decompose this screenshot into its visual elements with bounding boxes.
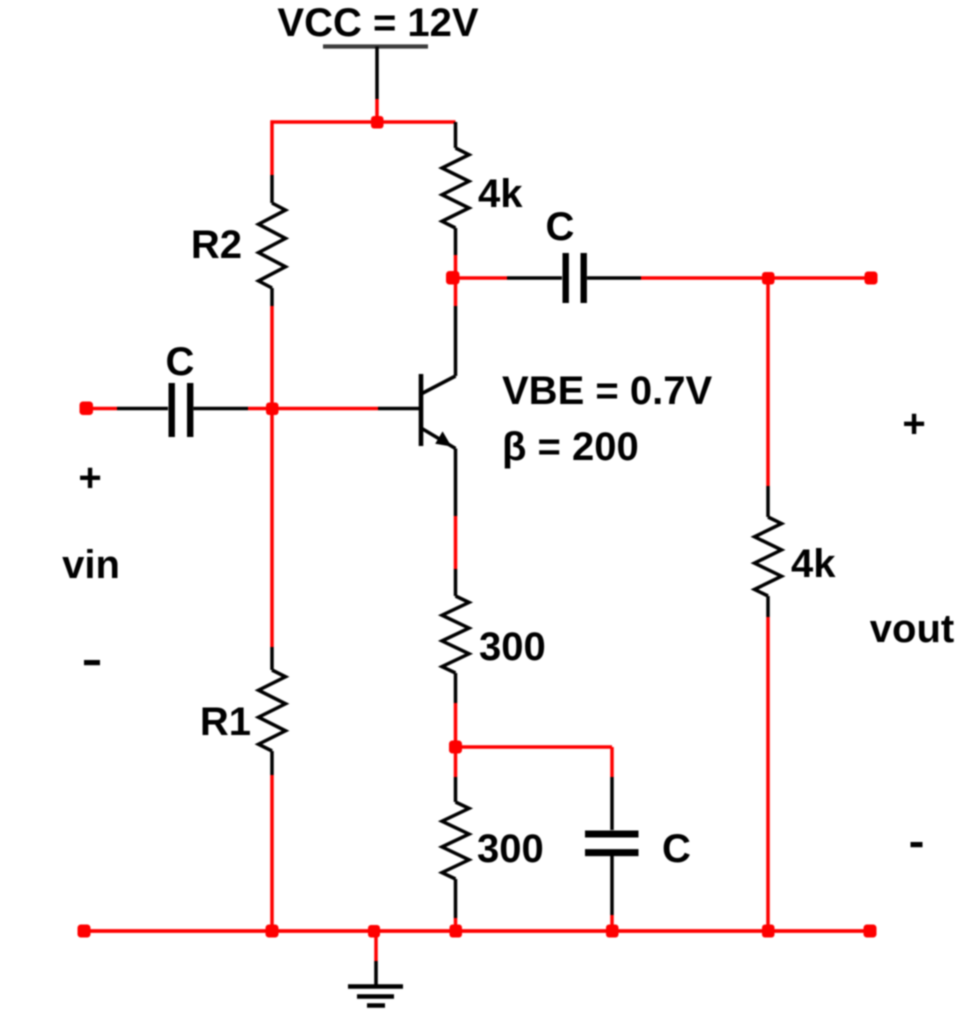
wire 4k to collector node bbox=[454, 255, 458, 306]
wire left branch middle (R2 to base node) bbox=[270, 306, 274, 408]
wire 300 to emitter mid node bbox=[454, 703, 458, 777]
node vin terminal dot bbox=[80, 402, 94, 416]
wire C2 to vout terminal bbox=[587, 276, 871, 280]
wire R1 to ground rail bbox=[270, 775, 274, 931]
svg-text:R2: R2 bbox=[191, 223, 242, 267]
wire collector node to transistor collector bbox=[454, 306, 458, 376]
svg-text:+: + bbox=[78, 456, 101, 500]
junction VCC node bbox=[371, 116, 384, 129]
svg-text:C: C bbox=[546, 205, 575, 249]
transistor Q1 (NPN BJT) bbox=[421, 374, 456, 449]
node vin- terminal dot bbox=[78, 925, 91, 938]
resistor 300 (lower emitter) bbox=[442, 777, 469, 918]
junction base node on left branch bbox=[266, 403, 279, 416]
power symbol VCC bar bbox=[323, 47, 428, 100]
resistor 4k (collector) bbox=[442, 148, 469, 255]
wire load branch upper bbox=[766, 278, 770, 486]
junction emitter branch at rail bbox=[450, 925, 463, 938]
svg-text:300: 300 bbox=[479, 625, 546, 669]
resistor 4k (load) bbox=[755, 486, 782, 617]
capacitor C2 (output coupling) bbox=[566, 253, 584, 303]
junction collector node bbox=[446, 271, 460, 285]
junction emitter mid node bbox=[449, 741, 462, 754]
resistor R1 bbox=[259, 647, 286, 775]
wire lower 300 to rail bbox=[454, 918, 458, 931]
wire vin terminal to C1 bbox=[86, 407, 168, 411]
svg-text:+: + bbox=[902, 402, 925, 446]
node vout- terminal dot bbox=[864, 925, 877, 938]
ground bbox=[348, 987, 403, 1006]
junction load branch at rail bbox=[762, 925, 775, 938]
wire left branch top (to R2) bbox=[270, 120, 274, 175]
resistor R2 bbox=[259, 175, 286, 306]
svg-text:4k: 4k bbox=[478, 172, 523, 216]
wire VCC stub red bbox=[375, 99, 379, 122]
svg-text:β = 200: β = 200 bbox=[502, 425, 639, 469]
svg-text:4k: 4k bbox=[791, 542, 836, 586]
junction ground at rail bbox=[368, 925, 380, 938]
junction load branch top node bbox=[762, 272, 775, 285]
wire emitter mid node to C3 top bbox=[456, 747, 613, 830]
resistor 300 (upper emitter) bbox=[442, 569, 469, 703]
svg-text:C: C bbox=[166, 340, 195, 384]
svg-text:vin: vin bbox=[62, 543, 120, 587]
wire collector node to C2 bbox=[456, 276, 563, 280]
label vout - bbox=[911, 842, 923, 847]
wire ground rail bbox=[84, 929, 870, 933]
capacitor C3 (emitter bypass) bbox=[585, 834, 639, 853]
wire top rail bbox=[271, 120, 456, 124]
wire emitter black upper bbox=[454, 449, 458, 517]
capacitor C1 (input coupling) bbox=[172, 383, 191, 437]
wire rail to ground symbol bbox=[374, 931, 378, 986]
svg-text:vout: vout bbox=[870, 607, 954, 651]
node vout+ terminal dot bbox=[865, 272, 878, 285]
svg-text:C: C bbox=[662, 827, 691, 871]
wire load branch lower bbox=[766, 617, 770, 931]
label vin - bbox=[84, 660, 100, 665]
svg-text:VBE = 0.7V: VBE = 0.7V bbox=[502, 369, 712, 413]
wire C1 to base bbox=[194, 407, 420, 411]
junction C3 at rail bbox=[606, 925, 619, 938]
wire emitter red segment bbox=[454, 516, 458, 569]
svg-text:300: 300 bbox=[477, 827, 544, 871]
svg-text:VCC = 12V: VCC = 12V bbox=[277, 1, 479, 45]
svg-text:R1: R1 bbox=[200, 700, 251, 744]
junction R1 at rail bbox=[266, 925, 279, 938]
wire left branch lower (base node to R1) bbox=[270, 408, 274, 647]
wire C3 bottom to rail bbox=[610, 856, 614, 931]
wire top rail corner to R(4k) bbox=[454, 122, 458, 148]
